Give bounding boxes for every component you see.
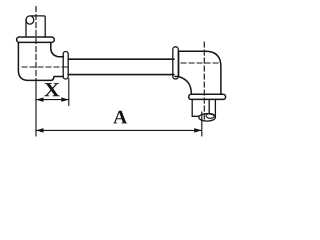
X dim arrowhead left xyxy=(36,97,44,102)
X dimension line xyxy=(36,99,69,101)
X dim arrowhead right xyxy=(61,97,69,102)
nipple right: open end ellipse xyxy=(199,114,216,121)
centerline left vertical (dashed) xyxy=(35,7,37,81)
horizontal centerline left elbow (dashed) xyxy=(22,66,67,68)
pipe bottom line xyxy=(68,74,174,76)
nipple left: open end ellipse xyxy=(26,16,34,24)
flange left (stadium band) xyxy=(17,37,55,42)
flange right (stadium band) xyxy=(189,94,226,99)
pipe top line xyxy=(68,58,174,60)
A dimension line xyxy=(36,129,202,131)
label A xyxy=(113,111,127,124)
centerline right vertical (dashed) xyxy=(203,42,205,121)
extension line right (solid, A dim) xyxy=(201,112,203,136)
elbow body right outline xyxy=(175,51,221,94)
nipple right outline xyxy=(192,99,215,116)
bead on left elbow outlet xyxy=(63,52,68,80)
nipple left: body outline xyxy=(26,16,45,37)
A dim arrowhead left xyxy=(36,128,44,133)
elbow body left outline xyxy=(18,42,63,80)
label X xyxy=(44,83,59,96)
extension line left (solid, X and A dims) xyxy=(35,81,37,137)
nipple right: bore ellipse xyxy=(206,114,214,119)
bead on right elbow inlet xyxy=(173,47,179,79)
X dim right extension line xyxy=(68,79,70,106)
horizontal centerline right elbow (dashed) xyxy=(181,62,220,64)
A dim arrowhead right xyxy=(194,128,202,133)
